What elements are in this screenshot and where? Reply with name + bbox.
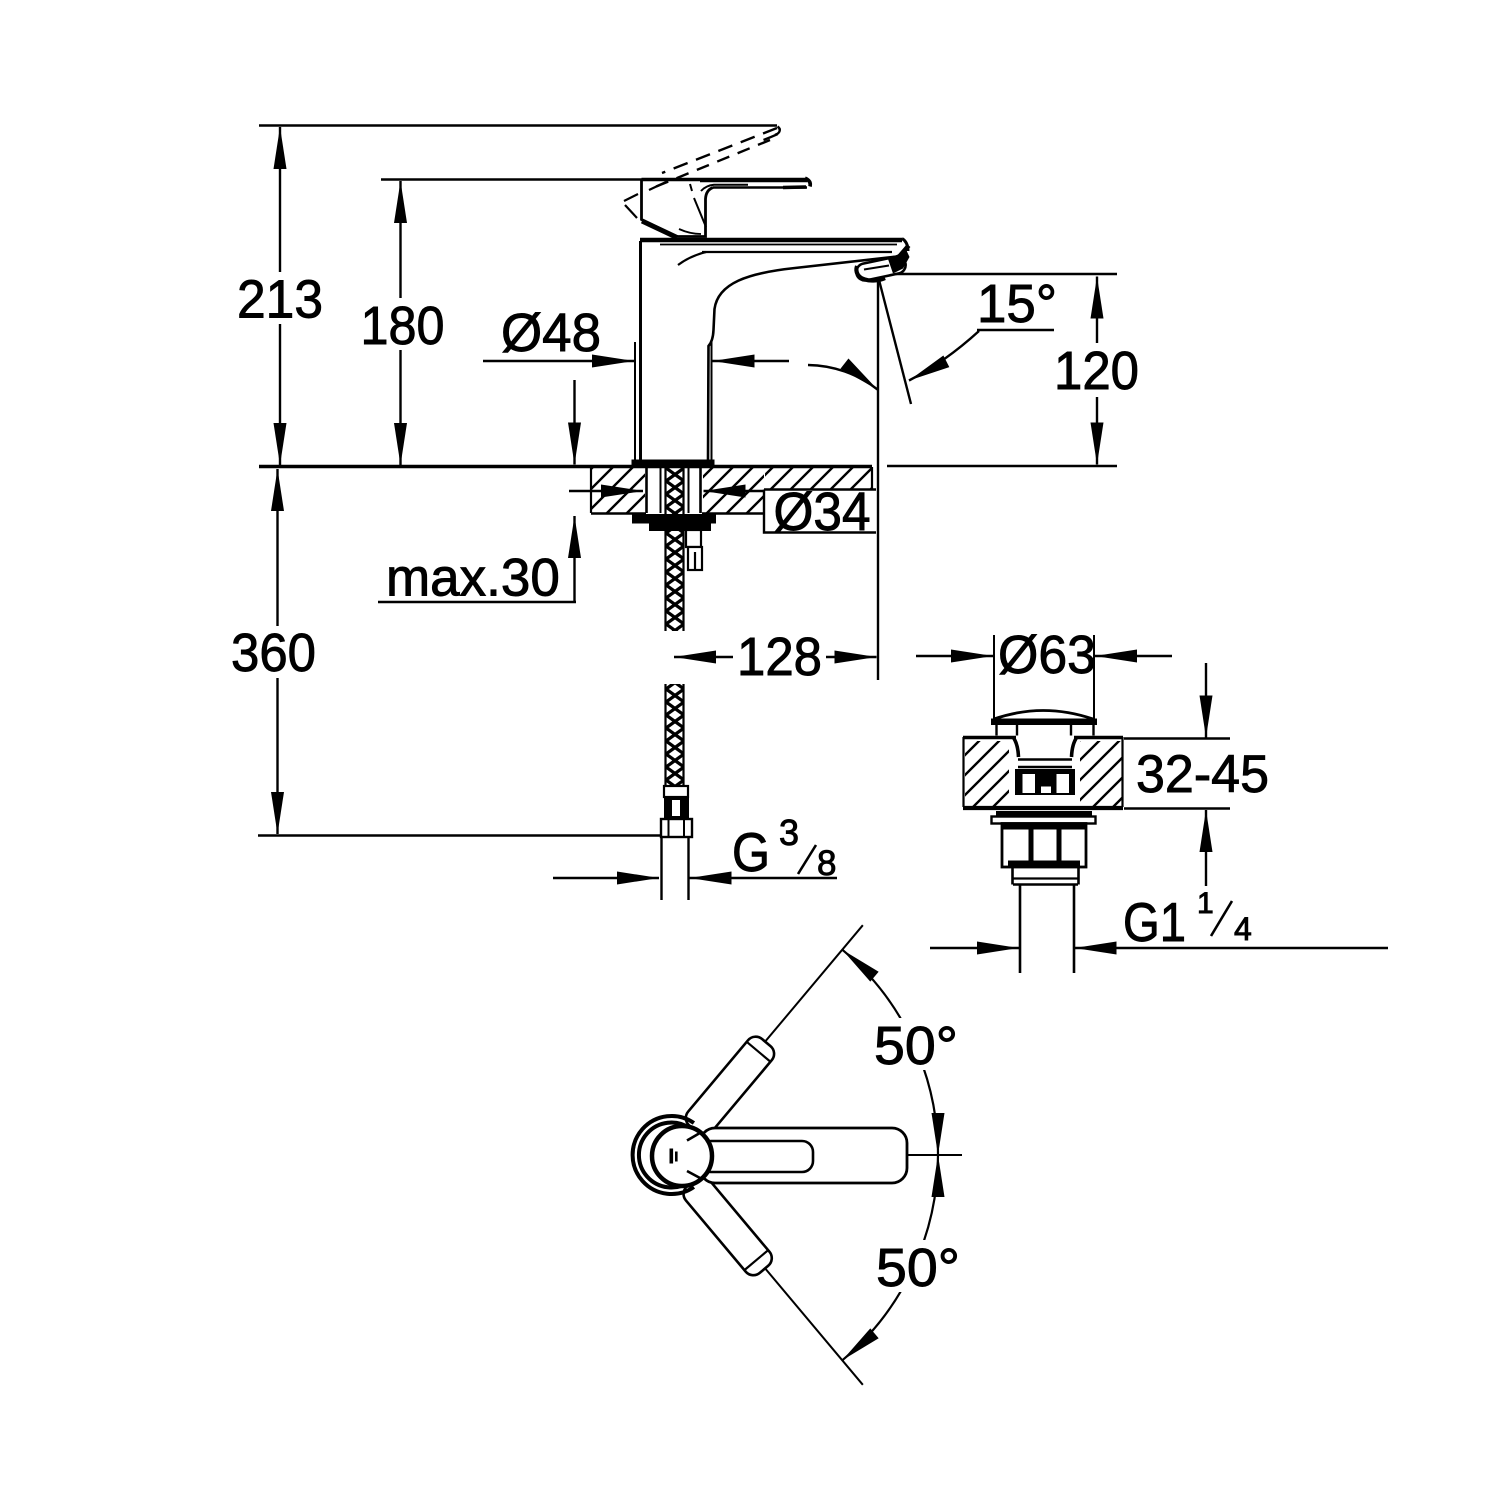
svg-text:8: 8: [817, 844, 836, 883]
svg-text:180: 180: [361, 296, 445, 356]
svg-text:50°: 50°: [876, 1238, 960, 1298]
svg-text:120: 120: [1054, 341, 1139, 401]
svg-text:max.30: max.30: [386, 549, 560, 608]
svg-text:15°: 15°: [977, 274, 1057, 334]
svg-text:360: 360: [231, 623, 316, 683]
svg-text:G: G: [732, 821, 770, 883]
svg-text:128: 128: [737, 627, 822, 687]
svg-text:50°: 50°: [874, 1016, 958, 1076]
svg-text:Ø48: Ø48: [501, 303, 601, 363]
svg-text:1: 1: [1197, 887, 1214, 920]
svg-text:4: 4: [1234, 911, 1252, 947]
svg-text:32-45: 32-45: [1136, 745, 1269, 804]
svg-text:213: 213: [237, 270, 323, 330]
svg-text:Ø63: Ø63: [998, 625, 1096, 685]
svg-text:G1: G1: [1123, 891, 1186, 953]
svg-text:3: 3: [779, 812, 799, 853]
svg-text:Ø34: Ø34: [774, 482, 871, 542]
